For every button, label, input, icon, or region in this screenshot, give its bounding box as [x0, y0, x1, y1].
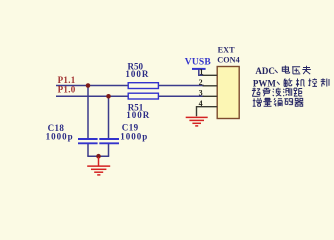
量: [263, 98, 271, 106]
wire R50 to pin2: [158, 85, 204, 87]
电: [282, 66, 289, 74]
capacitor C18: [78, 139, 98, 143]
svg-text:EXT: EXT: [218, 46, 236, 55]
波: [273, 88, 282, 96]
svg-text:ADC: ADC: [255, 66, 275, 76]
wire P1.0 net horizontal: [56, 95, 128, 97]
annotation text line 4: 增量编码器: [253, 98, 304, 106]
svg-text:P1.0: P1.0: [58, 85, 76, 95]
、: [277, 82, 280, 85]
VUSB bar symbol: [192, 68, 206, 70]
junction dot node P1.0/C19: [106, 94, 111, 99]
wire P1.1 net horizontal: [56, 85, 128, 87]
ground symbol left: [87, 157, 110, 175]
控: [308, 78, 317, 86]
svg-text:2: 2: [199, 78, 203, 87]
svg-text:4: 4: [199, 99, 203, 108]
annotation text line 3: 超声波测距: [252, 88, 302, 97]
舵: [284, 79, 292, 87]
junction dot node P1.1/C18: [86, 83, 91, 88]
annotation text line 1: ADC、电压表: [255, 66, 310, 77]
wire vertical to C18: [87, 86, 89, 139]
svg-text:3: 3: [199, 88, 203, 97]
增: [253, 98, 262, 106]
svg-text:VUSB: VUSB: [185, 58, 212, 68]
编: [274, 98, 282, 106]
声: [263, 88, 271, 97]
svg-text:1: 1: [199, 67, 203, 76]
pin 1 stub: [203, 74, 218, 76]
resistor R51: [128, 93, 158, 99]
超: [252, 88, 260, 97]
pin 4 stub and wire to ground: [197, 107, 218, 117]
wire bottom rail: [87, 155, 109, 157]
svg-text:100R: 100R: [126, 110, 150, 120]
svg-text:1000p: 1000p: [120, 132, 148, 142]
ground symbol right: [186, 117, 208, 126]
测: [283, 88, 292, 96]
wire C19 bottom: [108, 144, 110, 156]
wire C18 bottom: [87, 144, 89, 156]
wire vertical to C19: [108, 96, 110, 138]
码: [284, 99, 292, 105]
机: [296, 79, 305, 87]
距: [294, 88, 302, 96]
表: [302, 66, 310, 74]
svg-text:CON4: CON4: [217, 56, 240, 65]
pin 2 stub: [203, 85, 218, 87]
junction dot node gnd rail: [96, 154, 101, 159]
wire R51 to pin3: [158, 95, 204, 97]
svg-text:1000p: 1000p: [46, 132, 74, 142]
svg-text:PWM: PWM: [253, 79, 276, 89]
capacitor C19: [99, 139, 119, 143]
annotation text line 2: PWM、舵机控制: [253, 78, 329, 88]
resistor R50: [128, 83, 158, 89]
器: [295, 98, 304, 106]
pin 3 stub: [203, 95, 218, 97]
、: [275, 70, 278, 73]
制: [321, 78, 329, 86]
压: [292, 67, 300, 74]
connector U CON4 body: [217, 67, 239, 119]
svg-text:100R: 100R: [125, 69, 149, 79]
VUSB stem wire: [199, 70, 204, 76]
